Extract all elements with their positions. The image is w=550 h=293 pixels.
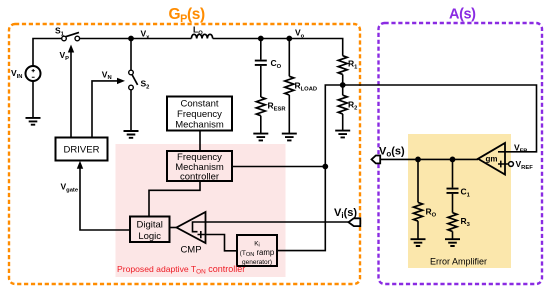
wire: FMC to controller column node (232, 166, 325, 168)
wire: VP arrow into driver (70, 49, 72, 138)
comparator CMP (177, 212, 206, 243)
node on controller column (322, 164, 328, 170)
inductor LO (191, 34, 212, 38)
wire: VN arrow toward S2 (92, 81, 118, 138)
Digital Logic box (130, 217, 170, 243)
arrowhead VN (117, 78, 125, 84)
error amplifier region (yellow) (408, 134, 511, 268)
wire: top rail inductor to R1 corner (213, 39, 343, 56)
port tag Vi(s) (349, 218, 361, 226)
Gp(s) boundary box (9, 24, 360, 284)
svg-text:Constant: Constant (180, 99, 218, 110)
port tag Vo(s) (372, 156, 381, 164)
svg-text:Logic: Logic (138, 231, 161, 242)
CMP minus input hook (193, 222, 206, 232)
resistor R2 (338, 95, 347, 114)
ground (under S2) (124, 131, 139, 138)
ground (under RESR) (253, 134, 268, 141)
node R1/R2 junction (340, 82, 346, 88)
ground (under RO) (411, 239, 426, 246)
Ki box (237, 235, 277, 266)
node Vx (128, 36, 134, 42)
node (CO branch) (258, 36, 264, 42)
CMP plus input and sign (198, 231, 206, 238)
wire: feedback tap to controller column (left) (277, 85, 343, 251)
svg-text:(TON ramp: (TON ramp (240, 248, 275, 258)
svg-text:CMP: CMP (180, 245, 201, 256)
resistor R1 (338, 56, 347, 75)
ground (under R3) (445, 239, 460, 246)
wire: Vin bottom to ground (32, 81, 34, 118)
wire: Vi(s) to CMP minus (206, 221, 350, 223)
wire: Vin top to S1 (33, 39, 62, 67)
svg-text:gm: gm (486, 155, 498, 164)
wire: CFM to FMC (199, 131, 201, 152)
capacitor C1 (452, 159, 454, 187)
resistor RO (417, 159, 419, 202)
op-amp gm (478, 143, 505, 175)
DRIVER box (56, 138, 108, 161)
A(s) boundary box (379, 23, 543, 284)
gm plus input and VREF terminal (498, 161, 509, 168)
wire: CMP plus to Ki box (206, 235, 238, 251)
voltage source VIN (26, 66, 41, 81)
svg-text:A(s): A(s) (449, 6, 476, 22)
resistor R3 (448, 213, 457, 232)
wire: top rail S1 to inductor (80, 38, 192, 40)
arrowhead VP (68, 45, 74, 53)
ground (under VIN) (26, 118, 41, 125)
resistor RLOAD (288, 39, 290, 77)
node Vo (286, 36, 292, 42)
svg-text:Vi(s): Vi(s) (334, 207, 357, 220)
arrowhead Vgate (77, 161, 83, 169)
wire: feedback tap to VFB (right) (343, 85, 537, 152)
ground (under RLOAD) (282, 134, 297, 141)
svg-text:Proposed adaptive TON controll: Proposed adaptive TON controller (117, 264, 245, 276)
wire: S2 to ground (130, 90, 132, 131)
proposed controller region (pink) (116, 144, 286, 277)
svg-text:Mechanism: Mechanism (175, 120, 224, 131)
svg-text:DRIVER: DRIVER (64, 145, 100, 156)
wire: CMP output to Digital Logic (170, 227, 177, 229)
switch S2 (132, 74, 138, 85)
svg-text:Vo(s): Vo(s) (379, 146, 405, 159)
wire: gm output rail (380, 158, 478, 160)
wire: S2 column from Vx (130, 39, 132, 71)
Constant Frequency Mechanism box (167, 97, 232, 131)
capacitor CO (260, 39, 262, 60)
wire: Vgate into driver (80, 166, 130, 230)
svg-text:generator): generator) (242, 259, 272, 266)
node C1 (450, 157, 456, 163)
svg-text:Error Amplifier: Error Amplifier (430, 257, 487, 267)
svg-text:GP(s): GP(s) (169, 6, 205, 25)
Frequency Mechanism controller box (167, 151, 232, 181)
svg-text:controller: controller (180, 171, 219, 182)
switch S1 (65, 32, 79, 36)
ground (under R2) (335, 131, 350, 138)
resistor RESR (256, 97, 265, 116)
svg-text:Frequency: Frequency (177, 109, 222, 120)
svg-text:Digital: Digital (136, 220, 162, 231)
wire: FMC to Digital Logic (149, 181, 200, 217)
node RO (415, 157, 421, 163)
